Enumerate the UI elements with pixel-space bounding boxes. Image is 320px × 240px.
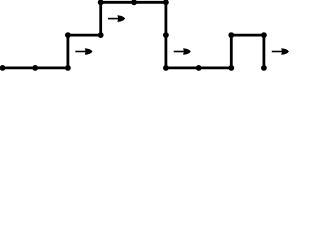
node t7 upper — [228, 32, 234, 38]
wire: baseline segment t0-t2 — [3, 67, 68, 70]
node t8 upper — [261, 32, 267, 38]
node t5 bottom — [163, 65, 169, 71]
node t4 — [131, 0, 137, 5]
node t8 end — [261, 65, 267, 71]
arrow 2 — [108, 15, 125, 22]
node t5 middle — [163, 32, 169, 38]
wire: down jump at t8 — [262, 34, 265, 68]
wire: down jump at t5 — [164, 1, 167, 68]
node t3 lower — [98, 32, 104, 38]
wire: level-1 segment t7-t8 — [231, 34, 264, 37]
node t0 — [0, 65, 5, 71]
arrow 3 — [174, 48, 191, 55]
node t6 — [196, 65, 202, 71]
node t1 — [32, 65, 38, 71]
wire: top level segment t3-t5 — [101, 1, 166, 4]
node t3 upper — [98, 0, 104, 5]
arrow 1 — [75, 48, 92, 55]
wire: up jump at t2 — [67, 35, 70, 69]
node t2 lower — [65, 65, 71, 71]
node t5 top — [163, 0, 169, 5]
wire: up jump at t3 — [99, 2, 102, 36]
node t2 upper — [65, 32, 71, 38]
wire: level-1 segment t2-t3 — [68, 34, 101, 37]
arrow 4 — [272, 48, 289, 55]
wire: baseline segment t5-t7 — [166, 67, 231, 70]
wire: up jump at t7 — [230, 35, 233, 69]
node t7 lower — [228, 65, 234, 71]
